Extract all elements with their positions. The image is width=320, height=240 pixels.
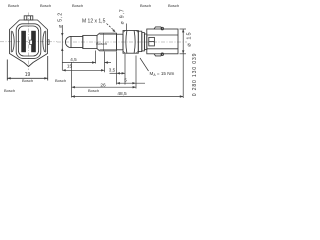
svg-text:5: 5 [124,78,127,83]
svg-text:Bosch: Bosch [72,3,83,8]
svg-text:MA = 15 Nm: MA = 15 Nm [150,71,175,77]
right collar bulge [45,31,47,53]
svg-text:Bosch: Bosch [40,3,51,8]
left collar bulge [10,31,12,53]
dim 26 [72,86,137,88]
svg-text:⌀ 5,2: ⌀ 5,2 [57,12,63,28]
dia 9.7 leader [126,24,128,31]
M12x1.5 leader [107,24,114,30]
dim 5 [117,82,146,84]
shank [83,35,97,48]
thread with chamfer [97,33,117,51]
dia 15 dimension right [180,28,187,30]
centerline vertical front view [28,13,30,71]
polarization notch [30,40,33,44]
washer groove [117,34,124,50]
svg-text:Bosch: Bosch [8,3,19,8]
svg-text:0 280 130 039: 0 280 130 039 [192,53,198,97]
terminal blade right [31,31,36,52]
svg-text:M 12 x 1,5: M 12 x 1,5 [82,18,106,24]
dim 15 [62,69,104,71]
bottom latch bump [154,54,162,56]
dim 48,5 [72,96,184,98]
svg-text:3,5: 3,5 [109,68,116,73]
thread runout line [102,33,104,51]
svg-text:26: 26 [100,82,106,88]
dim 19 extension lines [6,60,8,81]
centerline horizontal front view [0,41,57,43]
svg-text:Bosch: Bosch [55,78,66,83]
dim 4,5 [62,62,95,64]
svg-text:Bosch: Bosch [4,88,15,93]
inner shroud rounded rect [18,26,38,56]
dim 19 line [7,77,47,79]
svg-text:⌀ 15: ⌀ 15 [187,31,193,46]
sensor tip dome [65,36,82,47]
top tab [24,16,33,20]
step ring [142,33,145,51]
terminal blade left [21,31,26,52]
body inner lines [147,34,178,36]
collar behind hex [138,31,142,51]
connector housing octagon (front view) [10,20,48,67]
dim 3,5 [110,72,126,74]
svg-text:⌀ 9,7: ⌀ 9,7 [120,9,126,25]
top latch bump [154,27,162,29]
extension lines side view [71,62,73,98]
MA leader [140,58,149,71]
terminal box detail [149,37,155,46]
svg-text:48,5: 48,5 [117,91,127,97]
dia 5.2 dimension [61,25,63,70]
step ring 2 [144,34,146,50]
svg-text:Bosch: Bosch [140,3,151,8]
centerline side view [57,41,187,43]
watermark ghosts [4,3,179,93]
outer shroud rounded rect [16,24,41,59]
svg-text:15: 15 [67,64,73,70]
hex nut [123,31,138,54]
svg-text:Bosch: Bosch [168,3,179,8]
svg-text:Bosch: Bosch [22,78,33,83]
svg-text:4,5: 4,5 [70,57,77,62]
connector body side view [147,29,178,54]
svg-text:19: 19 [25,72,31,78]
svg-text:Bosch: Bosch [88,88,99,93]
